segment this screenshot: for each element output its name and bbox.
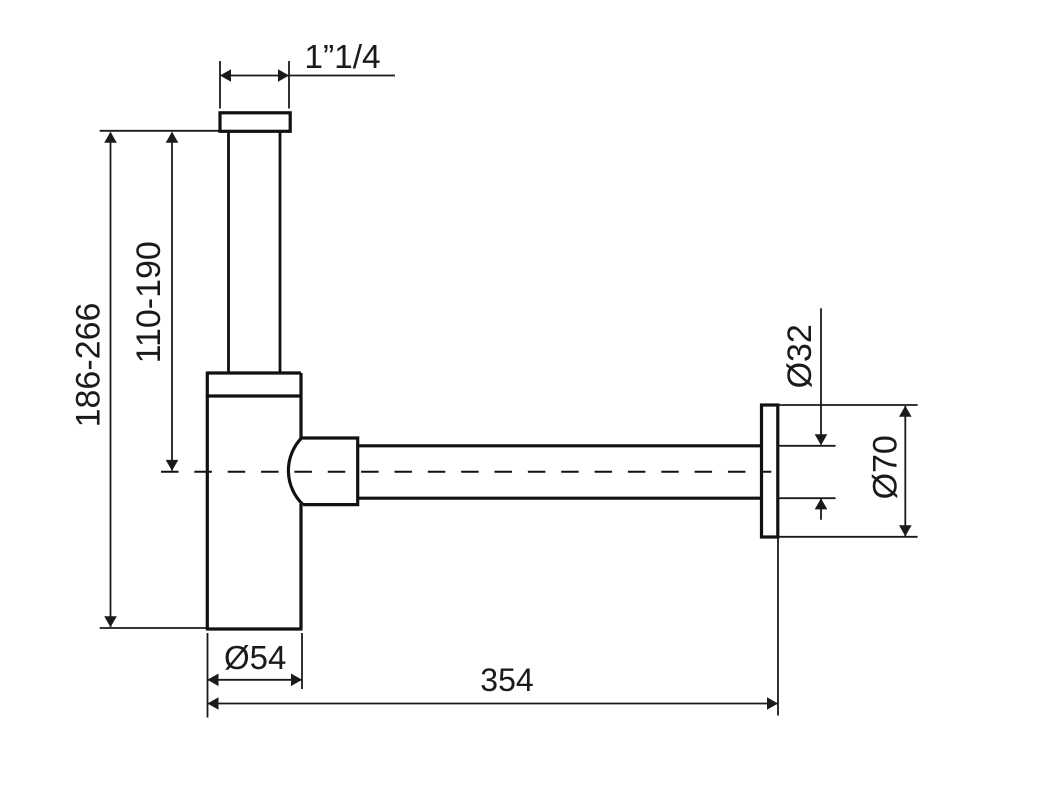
arrowhead 186-266 bottom: [104, 616, 117, 627]
dim O54 dimension line: [208, 679, 303, 681]
arrowhead O32 up: [815, 498, 828, 509]
arrowhead 1"1/4 left: [220, 69, 231, 82]
svg-text:110-190: 110-190: [130, 241, 168, 363]
arrowhead 354 right: [767, 697, 778, 710]
dim O32 lower arrow tail: [820, 499, 822, 520]
arrowhead 354 left: [208, 697, 219, 710]
horizontal pipe bottom wall: [358, 497, 762, 500]
dim O70 bottom extension line: [778, 536, 918, 538]
dim O54 right extension line: [301, 633, 303, 689]
arrowhead 110-190 top: [166, 132, 179, 143]
dim O70 dimension line: [904, 406, 906, 536]
dim 1"1/4 dimension line: [220, 75, 395, 77]
svg-text:354: 354: [480, 662, 533, 698]
dim 110-190 dimension line: [171, 133, 173, 471]
pipe top edge extension line: [778, 445, 836, 447]
dim O70 top extension line: [778, 404, 918, 406]
outlet connector nut: [288, 438, 357, 505]
arrowhead 110-190 bottom: [166, 460, 179, 471]
wall flange (rosette): [762, 405, 778, 537]
dim 186-266 bottom extension line: [100, 627, 206, 629]
dim O32 leader line above: [820, 308, 822, 444]
horizontal pipe top wall: [358, 444, 762, 447]
dim 186-266 top extension line: [100, 130, 219, 132]
centerline (dashed axis): [161, 471, 771, 473]
inlet pipe right wall: [279, 132, 282, 374]
svg-text:Ø54: Ø54: [224, 639, 286, 676]
svg-text:Ø32: Ø32: [781, 324, 819, 388]
dim 354 dimension line: [208, 703, 779, 705]
inlet pipe left wall: [227, 132, 230, 374]
svg-text:186-266: 186-266: [69, 303, 107, 428]
arrowhead O54 left: [208, 674, 219, 687]
dim O54 left extension line (shared with 354): [207, 633, 209, 718]
dim 186-266 dimension line: [110, 133, 112, 628]
arrowhead O54 right: [291, 674, 302, 687]
arrowhead O70 bottom: [899, 525, 912, 536]
pipe bottom edge extension line: [778, 497, 836, 499]
dim 354 right extension line: [777, 539, 779, 716]
svg-text:Ø70: Ø70: [866, 435, 904, 499]
arrowhead 186-266 top: [104, 132, 117, 143]
trap body outline: [207, 372, 302, 631]
dim 1"1/4 extension line left: [219, 61, 221, 109]
top flange (inlet nut): [220, 113, 290, 132]
body cap seam line: [206, 394, 303, 397]
dim 1"1/4 extension line right: [288, 61, 290, 109]
arrowhead 1"1/4 right: [278, 69, 289, 82]
arrowhead O70 top: [899, 406, 912, 417]
svg-text:1”1/4: 1”1/4: [304, 39, 380, 76]
arrowhead O32 down: [815, 434, 828, 445]
